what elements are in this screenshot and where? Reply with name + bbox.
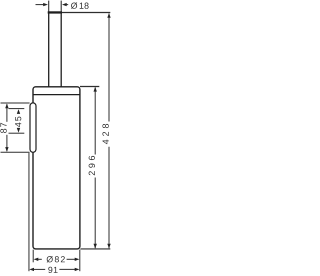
- Ø82 dimension right arrowhead: [75, 258, 80, 261]
- dimension label Ø 18: [71, 2, 89, 9]
- 91 dimension right arrowhead: [75, 268, 80, 271]
- 45 dimension lower extension line: [9, 132, 25, 134]
- brush handle rod right edge: [60, 12, 62, 87]
- 428 dimension down arrowhead: [107, 244, 110, 249]
- Ø82 dimension left arrowhead: [34, 258, 39, 261]
- dimension Ø18 right arrow shaft: [66, 4, 68, 6]
- holder body outline: [33, 87, 80, 249]
- 296 dimension down arrowhead: [94, 244, 97, 249]
- Ø82 dimension left shaft: [38, 258, 42, 260]
- 87 dimension line upper segment: [6, 104, 8, 122]
- 91 dimension label: [48, 267, 57, 273]
- extension line from holder top to 296 dimension: [80, 86, 99, 88]
- 87 dimension up arrowhead: [5, 104, 8, 109]
- 428 dimension line upper segment: [108, 14, 110, 122]
- 87 dimension bottom extension line: [1, 151, 30, 153]
- 91 dimension left shaft: [34, 268, 46, 270]
- 87 dimension label: [0, 123, 6, 133]
- 428 dimension label: [102, 124, 108, 144]
- 45 dimension up arrowhead: [17, 109, 20, 114]
- 45 dimension upper extension line: [9, 108, 25, 110]
- 91 dimension left arrowhead: [29, 268, 34, 271]
- dimension Ø18 right arrowhead: [62, 3, 67, 6]
- holder lid seam line: [33, 94, 79, 96]
- 91 dimension right shaft: [59, 268, 75, 270]
- dimension Ø18 left arrow shaft: [36, 4, 45, 6]
- Ø82 and 91 right extension line: [79, 250, 81, 272]
- 296 dimension line lower segment: [94, 178, 96, 249]
- Ø82 left extension line: [32, 250, 34, 263]
- 87 dimension top extension line: [1, 102, 30, 104]
- 91 left extension line: [28, 153, 30, 271]
- extension line above handle right: [60, 1, 62, 12]
- 296 dimension label: [89, 156, 95, 175]
- 45 dimension down arrowhead: [17, 128, 20, 133]
- 296 dimension line upper segment: [94, 88, 96, 155]
- 428 dimension line lower segment: [108, 147, 110, 248]
- 45 dimension label: [15, 117, 21, 127]
- Ø82 dimension label: [47, 256, 65, 263]
- 87 dimension down arrowhead: [5, 147, 8, 152]
- extension line above handle left: [48, 1, 50, 12]
- brush handle top cap: [48, 11, 62, 13]
- bottom extension line to 296 and 428 dimensions: [80, 248, 110, 250]
- 428 dimension up arrowhead: [107, 13, 110, 18]
- dimension Ø18 left arrowhead: [43, 3, 48, 6]
- 87 dimension line lower segment: [6, 135, 8, 151]
- brush handle rod left edge: [48, 12, 50, 87]
- 296 dimension up arrowhead: [94, 87, 97, 92]
- wall plate: [30, 103, 36, 152]
- extension line from cap to 428 dimension: [62, 12, 110, 14]
- Ø82 dimension right shaft: [67, 258, 76, 260]
